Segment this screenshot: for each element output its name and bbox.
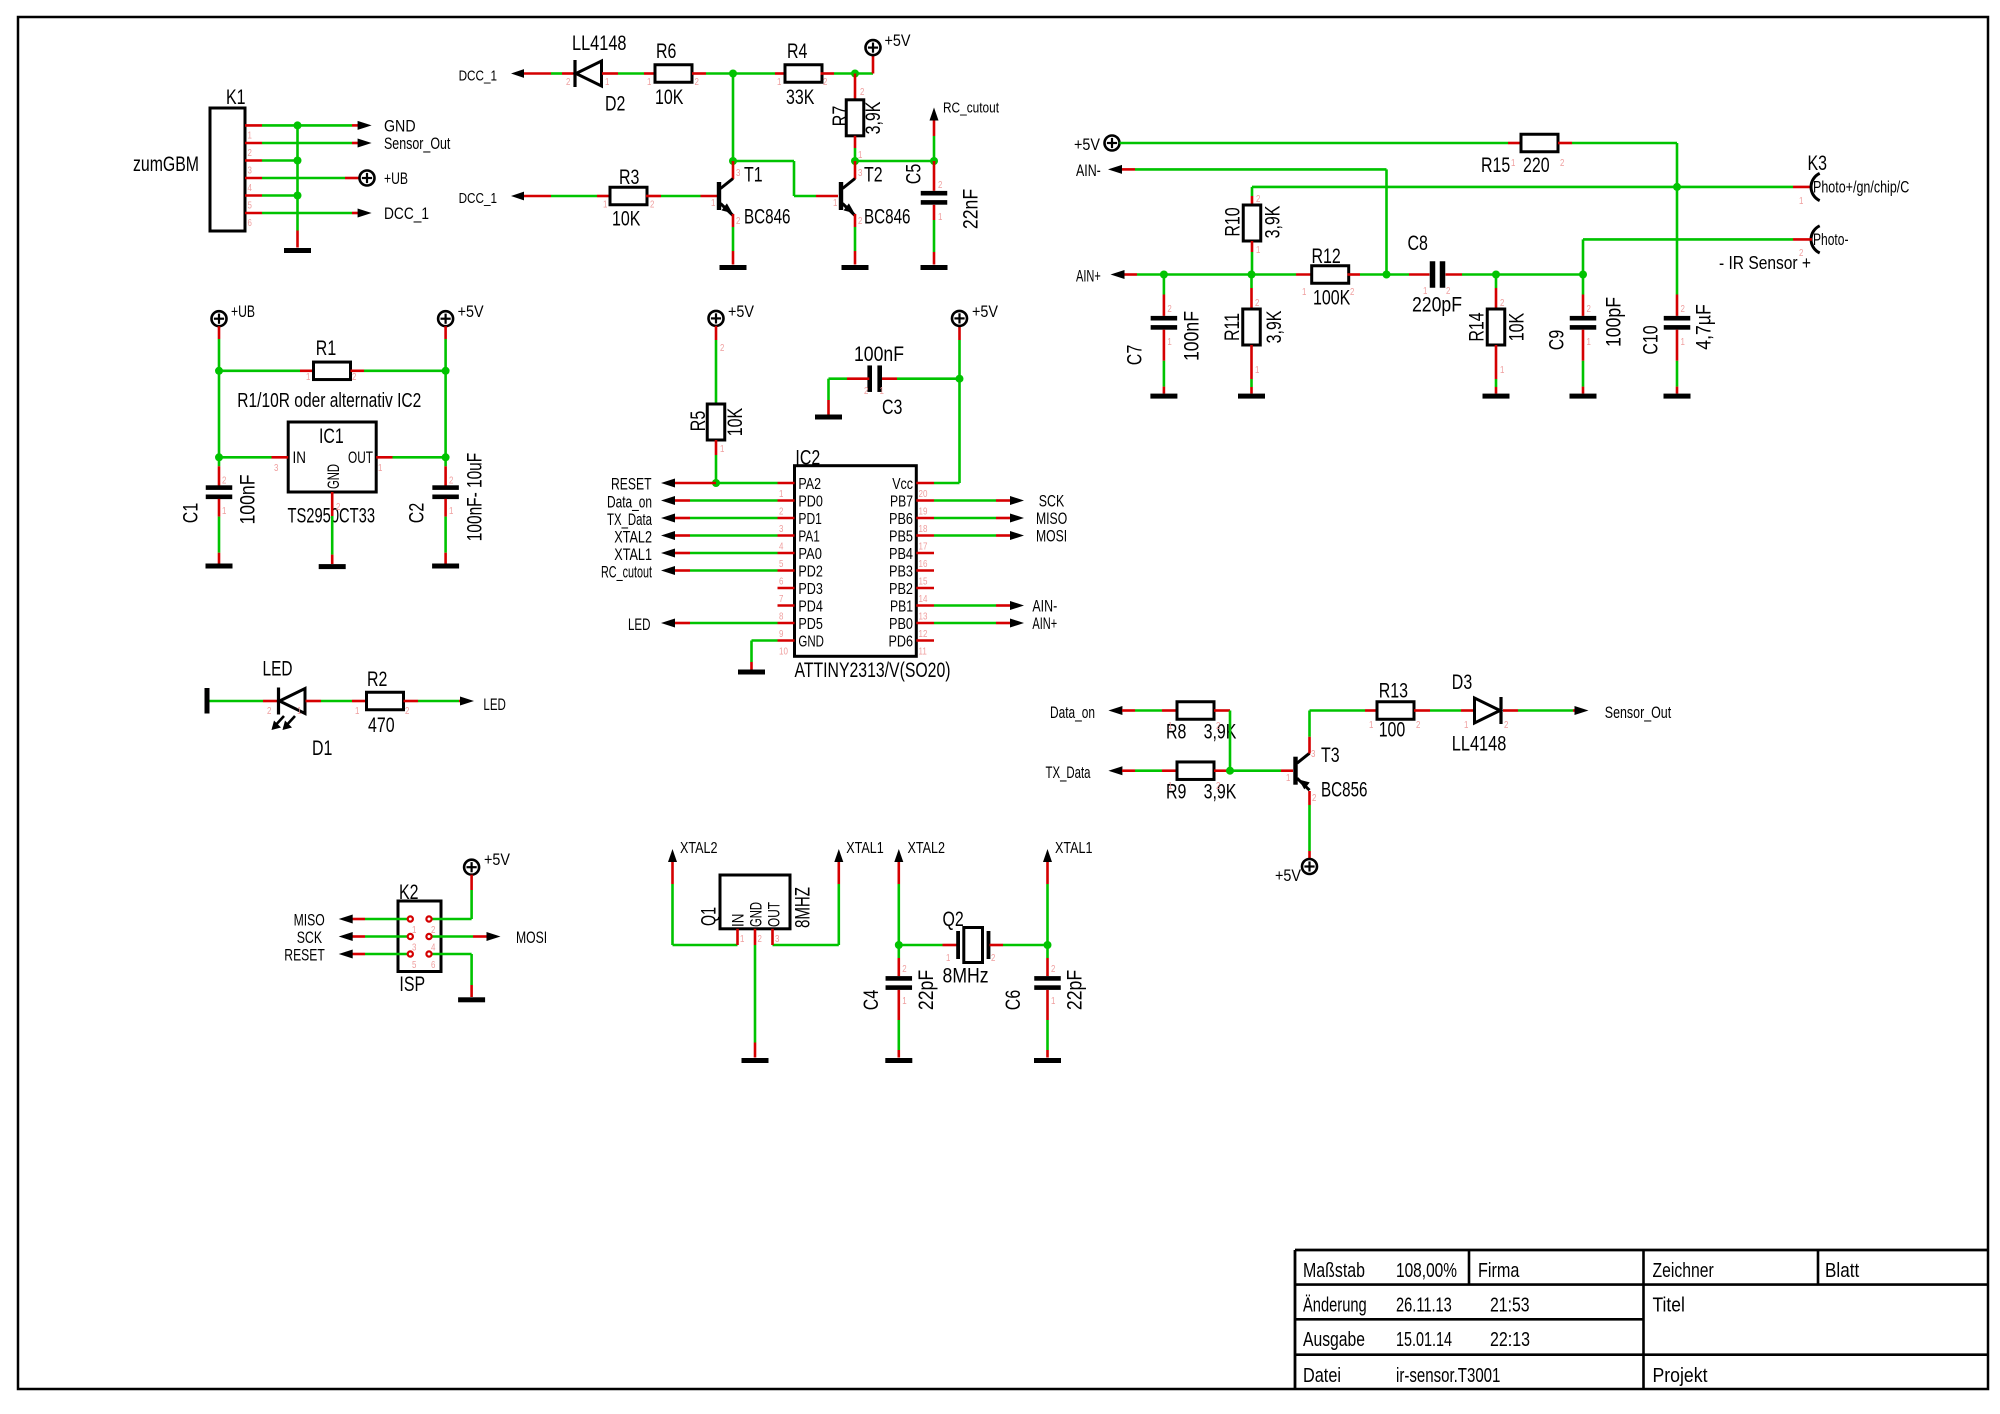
svg-text:2: 2: [336, 501, 341, 513]
svg-text:R13: R13: [1379, 680, 1408, 703]
svg-text:3,9K: 3,9K: [1263, 311, 1286, 344]
svg-text:17: 17: [919, 541, 928, 553]
svg-text:PB5: PB5: [889, 529, 913, 546]
svg-text:22:13: 22:13: [1490, 1329, 1530, 1351]
svg-text:R10: R10: [1222, 207, 1245, 236]
svg-text:20: 20: [919, 488, 928, 500]
svg-text:2: 2: [566, 76, 571, 88]
svg-text:+5V: +5V: [1275, 866, 1302, 885]
svg-text:1: 1: [603, 199, 608, 211]
svg-text:18: 18: [919, 523, 928, 535]
svg-text:2: 2: [1167, 303, 1172, 315]
svg-text:C6: C6: [1002, 990, 1025, 1010]
svg-text:11: 11: [919, 646, 927, 658]
svg-text:9: 9: [779, 628, 784, 640]
svg-text:Maßstab: Maßstab: [1303, 1260, 1365, 1282]
svg-text:K1: K1: [226, 86, 246, 109]
svg-text:2: 2: [1051, 963, 1056, 975]
svg-text:4: 4: [779, 541, 784, 553]
svg-text:6: 6: [431, 959, 436, 971]
svg-text:100nF: 100nF: [237, 475, 260, 525]
svg-text:4,7µF: 4,7µF: [1693, 304, 1716, 350]
svg-text:2: 2: [405, 705, 410, 717]
svg-text:PB1: PB1: [890, 599, 913, 616]
svg-text:RC_cutout: RC_cutout: [943, 100, 1000, 117]
svg-text:LL4148: LL4148: [572, 32, 627, 55]
svg-text:3,9K: 3,9K: [1262, 206, 1285, 239]
svg-text:1: 1: [222, 505, 227, 517]
svg-text:Projekt: Projekt: [1653, 1365, 1708, 1387]
svg-text:1: 1: [1681, 336, 1686, 348]
svg-text:XTAL2: XTAL2: [614, 528, 652, 547]
svg-text:XTAL2: XTAL2: [908, 840, 946, 857]
svg-text:1: 1: [1255, 364, 1260, 376]
svg-text:ir-sensor.T3001: ir-sensor.T3001: [1396, 1365, 1500, 1387]
svg-text:10K: 10K: [612, 208, 640, 231]
svg-text:C5: C5: [903, 164, 926, 184]
svg-text:K2: K2: [399, 881, 419, 904]
svg-text:1: 1: [355, 705, 360, 717]
svg-text:+5V: +5V: [1074, 135, 1101, 154]
svg-text:2: 2: [1560, 157, 1565, 169]
svg-text:2: 2: [1504, 719, 1509, 731]
svg-text:ATTINY2313/V(SO20): ATTINY2313/V(SO20): [795, 659, 951, 682]
svg-text:2: 2: [858, 215, 863, 227]
svg-text:Vcc: Vcc: [892, 476, 913, 493]
svg-text:SCK: SCK: [1039, 492, 1065, 511]
svg-text:AIN-: AIN-: [1076, 161, 1101, 180]
svg-text:100nF- 10uF: 100nF- 10uF: [463, 453, 486, 541]
svg-text:1: 1: [938, 211, 943, 223]
svg-text:5: 5: [248, 200, 253, 212]
svg-text:1: 1: [248, 129, 253, 141]
svg-text:10K: 10K: [724, 408, 747, 436]
svg-text:IN: IN: [293, 448, 306, 467]
svg-text:R1/10R oder alternativ IC2: R1/10R oder alternativ IC2: [237, 390, 421, 412]
svg-text:2: 2: [1681, 303, 1686, 315]
svg-text:1: 1: [1168, 780, 1173, 792]
svg-text:2: 2: [938, 179, 943, 191]
svg-text:GND: GND: [798, 634, 824, 651]
svg-text:RESET: RESET: [611, 475, 652, 494]
svg-text:1: 1: [449, 505, 454, 517]
svg-text:2: 2: [267, 705, 272, 717]
svg-text:1: 1: [858, 149, 863, 161]
svg-text:GND: GND: [384, 117, 416, 136]
svg-text:K3: K3: [1808, 152, 1828, 175]
svg-text:T2: T2: [864, 164, 883, 187]
svg-text:1: 1: [740, 933, 745, 945]
svg-text:LL4148: LL4148: [1452, 733, 1507, 756]
svg-text:3: 3: [775, 933, 780, 945]
svg-text:1: 1: [378, 462, 383, 474]
svg-text:100K: 100K: [1313, 287, 1350, 310]
svg-text:Blatt: Blatt: [1825, 1260, 1860, 1282]
svg-text:Data_on: Data_on: [1050, 703, 1095, 722]
svg-text:16: 16: [919, 558, 928, 570]
svg-text:2: 2: [864, 385, 869, 397]
svg-text:LED: LED: [483, 695, 506, 714]
svg-text:IC1: IC1: [319, 425, 344, 448]
svg-text:22pF: 22pF: [1064, 970, 1087, 1010]
svg-text:XTAL1: XTAL1: [846, 840, 884, 857]
svg-text:R11: R11: [1221, 313, 1244, 341]
svg-text:8MHz: 8MHz: [943, 965, 989, 988]
svg-text:IN: IN: [729, 914, 748, 927]
svg-text:Sensor_Out: Sensor_Out: [384, 134, 451, 153]
svg-text:C4: C4: [860, 990, 883, 1011]
svg-text:R12: R12: [1312, 245, 1341, 268]
svg-text:+UB: +UB: [384, 169, 408, 188]
svg-text:zumGBM: zumGBM: [133, 153, 199, 176]
svg-text:15: 15: [919, 576, 928, 588]
svg-text:1: 1: [1464, 719, 1469, 731]
svg-text:2: 2: [1446, 285, 1451, 297]
svg-text:2: 2: [248, 147, 253, 159]
svg-text:12: 12: [919, 628, 928, 640]
svg-text:2: 2: [779, 506, 784, 518]
svg-text:1: 1: [711, 197, 716, 209]
svg-text:Q2: Q2: [943, 908, 964, 931]
svg-text:220: 220: [1523, 154, 1550, 177]
svg-text:R14: R14: [1466, 312, 1489, 342]
svg-text:2: 2: [1416, 719, 1421, 731]
svg-text:1: 1: [1168, 720, 1173, 732]
svg-text:SCK: SCK: [297, 928, 323, 947]
svg-text:PB6: PB6: [889, 511, 913, 528]
svg-text:OUT: OUT: [348, 448, 373, 467]
svg-text:PD4: PD4: [798, 599, 823, 616]
svg-text:1: 1: [720, 443, 725, 455]
svg-text:2: 2: [991, 952, 996, 964]
svg-text:AIN+: AIN+: [1032, 614, 1057, 633]
svg-text:2: 2: [222, 475, 227, 487]
svg-text:2: 2: [736, 215, 741, 227]
svg-text:PD0: PD0: [798, 494, 823, 511]
svg-text:2: 2: [1216, 720, 1221, 732]
svg-text:Photo-: Photo-: [1813, 230, 1849, 249]
svg-text:1: 1: [1511, 157, 1516, 169]
svg-text:1: 1: [946, 952, 951, 964]
svg-text:MOSI: MOSI: [1036, 527, 1067, 546]
svg-text:100: 100: [1379, 719, 1406, 742]
svg-text:+5V: +5V: [972, 302, 999, 321]
svg-text:108,00%: 108,00%: [1396, 1260, 1457, 1282]
svg-text:10K: 10K: [1506, 313, 1529, 341]
svg-text:22pF: 22pF: [915, 970, 938, 1010]
svg-text:1: 1: [605, 76, 610, 88]
svg-text:GND: GND: [747, 902, 766, 927]
svg-text:Sensor_Out: Sensor_Out: [1605, 703, 1672, 722]
svg-text:PA1: PA1: [798, 529, 820, 546]
svg-text:2: 2: [449, 475, 454, 487]
svg-text:13: 13: [919, 611, 928, 623]
svg-text:1: 1: [1051, 995, 1056, 1007]
svg-text:3: 3: [858, 167, 863, 179]
svg-text:C8: C8: [1408, 232, 1428, 255]
svg-text:3: 3: [1311, 748, 1316, 760]
svg-text:R15: R15: [1481, 154, 1510, 177]
svg-text:Photo+/gn/chip/C: Photo+/gn/chip/C: [1813, 178, 1909, 197]
svg-text:Änderung: Änderung: [1303, 1295, 1367, 1317]
svg-text:D2: D2: [605, 93, 625, 116]
svg-text:D3: D3: [1452, 671, 1472, 694]
svg-text:1: 1: [1286, 772, 1291, 784]
svg-text:DCC_1: DCC_1: [459, 190, 497, 207]
svg-text:1: 1: [1587, 336, 1592, 348]
svg-text:100nF: 100nF: [1180, 311, 1203, 361]
svg-text:2: 2: [860, 86, 865, 98]
svg-text:3: 3: [736, 167, 741, 179]
svg-text:+UB: +UB: [231, 302, 255, 321]
svg-text:C1: C1: [180, 503, 203, 523]
svg-text:1: 1: [902, 995, 907, 1007]
svg-text:1: 1: [779, 488, 784, 500]
svg-text:ISP: ISP: [399, 973, 425, 996]
svg-text:+5V: +5V: [885, 31, 912, 50]
svg-text:1: 1: [647, 76, 652, 88]
svg-text:MOSI: MOSI: [516, 928, 547, 947]
svg-text:DCC_1: DCC_1: [384, 204, 429, 223]
svg-text:2: 2: [650, 199, 655, 211]
svg-text:2: 2: [902, 963, 907, 975]
svg-text:1: 1: [1369, 719, 1374, 731]
svg-text:1: 1: [1256, 244, 1261, 256]
svg-text:BC846: BC846: [864, 206, 911, 229]
svg-text:2: 2: [1255, 297, 1260, 309]
svg-text:T1: T1: [744, 164, 763, 187]
svg-text:1: 1: [777, 76, 782, 88]
svg-text:TX_Data: TX_Data: [607, 510, 652, 529]
svg-text:PD2: PD2: [798, 564, 823, 581]
svg-text:C9: C9: [1546, 330, 1569, 350]
svg-text:GND: GND: [324, 464, 343, 489]
svg-text:OUT: OUT: [765, 902, 784, 927]
svg-text:AIN-: AIN-: [1032, 597, 1057, 616]
svg-text:220pF: 220pF: [1412, 294, 1462, 317]
svg-text:DCC_1: DCC_1: [459, 68, 497, 85]
svg-text:R1: R1: [316, 337, 336, 360]
svg-text:+5V: +5V: [484, 850, 511, 869]
svg-text:Titel: Titel: [1653, 1295, 1685, 1317]
svg-text:MISO: MISO: [1036, 509, 1067, 528]
svg-text:PB3: PB3: [889, 564, 913, 581]
svg-text:2: 2: [1350, 286, 1355, 298]
svg-text:PB2: PB2: [889, 581, 913, 598]
svg-text:2: 2: [695, 76, 700, 88]
svg-text:8MHZ: 8MHZ: [792, 887, 815, 928]
svg-text:PA2: PA2: [798, 476, 821, 493]
svg-text:C7: C7: [1123, 345, 1146, 365]
svg-text:5: 5: [412, 959, 417, 971]
svg-text:RESET: RESET: [284, 946, 325, 965]
svg-text:2: 2: [758, 933, 763, 945]
svg-text:RC_cutout: RC_cutout: [601, 563, 652, 582]
svg-text:1: 1: [1302, 286, 1307, 298]
svg-text:Q1: Q1: [698, 907, 721, 926]
svg-text:PD1: PD1: [798, 511, 822, 528]
svg-text:R6: R6: [656, 40, 676, 63]
svg-text:C3: C3: [882, 396, 902, 419]
svg-text:PD3: PD3: [798, 581, 823, 598]
svg-text:Zeichner: Zeichner: [1653, 1260, 1714, 1282]
svg-text:2: 2: [1500, 297, 1505, 309]
svg-text:+5V: +5V: [458, 302, 485, 321]
svg-text:1: 1: [1500, 364, 1505, 376]
svg-text:R4: R4: [787, 40, 808, 63]
svg-text:IC2: IC2: [795, 447, 820, 470]
svg-text:1: 1: [1423, 285, 1428, 297]
svg-text:470: 470: [368, 714, 395, 737]
svg-text:Datei: Datei: [1303, 1365, 1341, 1387]
svg-text:R2: R2: [367, 668, 387, 691]
svg-text:100nF: 100nF: [854, 343, 904, 366]
svg-text:R3: R3: [619, 166, 639, 189]
svg-text:3: 3: [274, 462, 279, 474]
svg-text:T3: T3: [1321, 744, 1340, 767]
svg-text:1: 1: [297, 705, 302, 717]
svg-text:3,9K: 3,9K: [862, 102, 885, 135]
svg-text:- IR Sensor +: - IR Sensor +: [1719, 253, 1811, 273]
svg-text:2: 2: [1312, 792, 1317, 804]
svg-text:1: 1: [880, 385, 885, 397]
svg-text:3: 3: [248, 165, 253, 177]
svg-text:TX_Data: TX_Data: [1046, 763, 1091, 782]
svg-text:LED: LED: [263, 658, 293, 681]
svg-text:2: 2: [1256, 193, 1261, 205]
svg-text:1: 1: [833, 197, 838, 209]
svg-text:PB0: PB0: [889, 616, 913, 633]
svg-text:+5V: +5V: [728, 302, 755, 321]
svg-text:1: 1: [1167, 336, 1172, 348]
svg-text:10K: 10K: [655, 86, 683, 109]
svg-text:C10: C10: [1640, 325, 1663, 354]
svg-text:Ausgabe: Ausgabe: [1303, 1329, 1365, 1351]
svg-text:PA0: PA0: [798, 546, 822, 563]
svg-text:5: 5: [779, 558, 784, 570]
svg-text:22nF: 22nF: [960, 189, 983, 229]
svg-text:2: 2: [1587, 303, 1592, 315]
svg-text:2: 2: [823, 76, 828, 88]
svg-text:7: 7: [779, 593, 784, 605]
svg-text:MISO: MISO: [294, 911, 325, 930]
svg-text:1: 1: [306, 371, 311, 383]
svg-text:Data_on: Data_on: [607, 493, 652, 512]
svg-text:LED: LED: [628, 615, 651, 634]
svg-text:14: 14: [919, 593, 928, 605]
svg-text:R7: R7: [829, 106, 852, 126]
svg-text:21:53: 21:53: [1490, 1295, 1530, 1317]
svg-text:8: 8: [779, 611, 784, 623]
svg-text:Firma: Firma: [1478, 1260, 1520, 1282]
svg-text:3: 3: [779, 523, 784, 535]
svg-text:6: 6: [248, 217, 253, 229]
svg-text:100pF: 100pF: [1603, 297, 1626, 347]
svg-text:XTAL2: XTAL2: [680, 840, 718, 857]
svg-text:PD5: PD5: [798, 616, 823, 633]
svg-text:BC846: BC846: [744, 206, 791, 229]
svg-text:2: 2: [720, 342, 725, 354]
svg-text:2: 2: [1216, 780, 1221, 792]
svg-text:AIN+: AIN+: [1076, 267, 1101, 286]
svg-text:PB7: PB7: [890, 494, 913, 511]
svg-text:10: 10: [779, 646, 788, 658]
svg-text:2: 2: [352, 371, 357, 383]
svg-text:XTAL1: XTAL1: [614, 545, 652, 564]
svg-text:1: 1: [1799, 195, 1804, 207]
svg-text:PB4: PB4: [889, 546, 913, 563]
svg-text:6: 6: [779, 576, 784, 588]
svg-text:19: 19: [919, 506, 928, 518]
svg-text:26.11.13: 26.11.13: [1396, 1295, 1452, 1317]
svg-text:R5: R5: [687, 411, 710, 431]
svg-text:C2: C2: [406, 503, 429, 523]
svg-text:XTAL1: XTAL1: [1055, 840, 1093, 857]
svg-text:15.01.14: 15.01.14: [1396, 1329, 1452, 1351]
svg-text:4: 4: [248, 182, 253, 194]
svg-text:BC856: BC856: [1321, 779, 1368, 802]
svg-text:PD6: PD6: [889, 634, 914, 651]
svg-text:33K: 33K: [786, 86, 814, 109]
svg-text:D1: D1: [312, 737, 332, 760]
